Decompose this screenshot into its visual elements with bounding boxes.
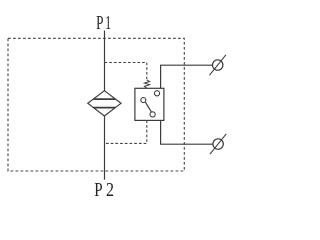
terminal T1 slash bbox=[210, 55, 226, 75]
pilot line upper (dashed) bbox=[105, 63, 147, 80]
wire P1 vertical upper bbox=[104, 31, 106, 91]
terminal T2 circle bbox=[213, 139, 223, 149]
contact terminal (lever end, upper left) bbox=[141, 98, 146, 103]
svg-text:1: 1 bbox=[105, 11, 111, 34]
svg-text:P: P bbox=[94, 178, 102, 201]
terminal T1 circle bbox=[213, 60, 223, 70]
pilot line lower (dashed) bbox=[105, 120, 147, 143]
wire to terminal T2 (bottom) bbox=[161, 120, 213, 144]
filter F1 diamond bbox=[88, 91, 121, 116]
wire P2 vertical lower bbox=[104, 116, 106, 180]
svg-text:2: 2 bbox=[106, 178, 114, 200]
terminal T2 slash bbox=[210, 134, 226, 154]
wire to terminal T1 (top) bbox=[161, 65, 213, 88]
switch lever bbox=[145, 102, 151, 112]
enclosure dashed boundary bbox=[8, 38, 184, 171]
svg-text:P: P bbox=[96, 11, 103, 33]
contact terminal (pivot, bottom) bbox=[150, 112, 155, 117]
spring bbox=[144, 80, 149, 88]
pressure switch S1 body bbox=[135, 88, 164, 120]
port label P2 bbox=[94, 178, 114, 201]
contact terminal (fixed, top right) bbox=[154, 91, 159, 96]
port label P1 bbox=[96, 11, 111, 34]
